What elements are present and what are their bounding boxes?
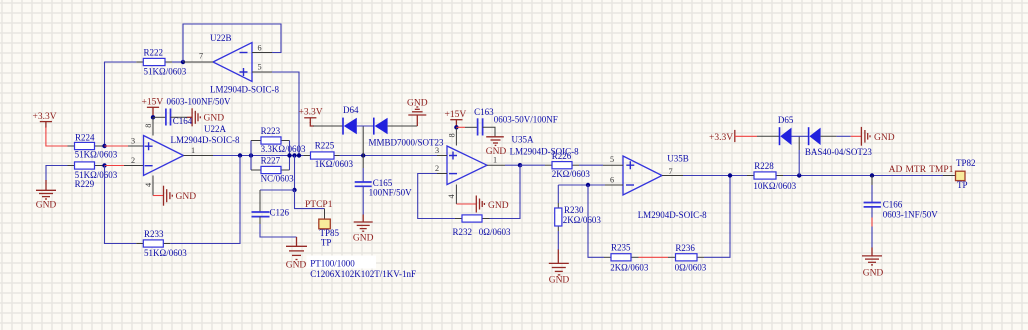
- wire main row U22A output: [213, 155, 311, 157]
- wire R228 to TP82: [783, 175, 943, 177]
- svg-text:6: 6: [257, 44, 261, 53]
- node pin8/C163: [454, 125, 458, 129]
- wire R222 left to vertical: [105, 62, 137, 146]
- pin 7 of U35B: [662, 175, 683, 177]
- svg-text:5: 5: [257, 63, 261, 72]
- wire C126 to ground: [260, 224, 297, 237]
- svg-text:LM2904D-SOIC-8: LM2904D-SOIC-8: [171, 135, 240, 145]
- svg-text:TP: TP: [321, 238, 332, 248]
- pin 1 of U35A: [487, 164, 505, 166]
- svg-text:1: 1: [493, 156, 497, 165]
- svg-text:+3.3V: +3.3V: [709, 133, 733, 143]
- node C126/PTCP1 branch: [292, 153, 296, 157]
- svg-text:R230: R230: [564, 205, 584, 215]
- node pin8/C164: [151, 115, 155, 119]
- svg-text:GND: GND: [549, 276, 570, 286]
- wire C164 to ground: [171, 116, 188, 118]
- pin 8 of U35A: [455, 127, 457, 145]
- resistor R223: [251, 126, 306, 154]
- svg-text:GND: GND: [863, 269, 884, 279]
- resistor R230 (vertical): [555, 185, 602, 231]
- svg-text:0603-50V/100NF: 0603-50V/100NF: [494, 114, 558, 124]
- svg-text:7: 7: [199, 52, 203, 61]
- node U22A pin2: [102, 163, 106, 167]
- wire U35B output row: [683, 175, 747, 177]
- svg-text:100NF/50V: 100NF/50V: [369, 188, 413, 198]
- svg-text:51KΩ/0603: 51KΩ/0603: [75, 150, 118, 160]
- testpoint TP82: [956, 158, 976, 190]
- node output/R233: [238, 153, 242, 157]
- svg-text:R232: R232: [453, 227, 473, 237]
- svg-text:+15V: +15V: [142, 98, 164, 108]
- pin 3 of U35A: [437, 155, 447, 157]
- svg-text:C165: C165: [373, 178, 393, 188]
- pin 6 of U22B: [252, 52, 272, 54]
- svg-text:GND: GND: [286, 261, 307, 271]
- resistor R224: [68, 132, 118, 159]
- svg-text:6: 6: [610, 176, 614, 185]
- svg-text:C163: C163: [474, 107, 494, 117]
- ground at C126: [286, 237, 307, 271]
- pin 6 of U35B: [605, 184, 623, 186]
- svg-text:2KΩ/0603: 2KΩ/0603: [563, 215, 602, 225]
- svg-text:2KΩ/0603: 2KΩ/0603: [552, 169, 591, 179]
- resistor R232: [453, 215, 511, 237]
- wire node to pin3 (red): [105, 145, 129, 147]
- pin 4 of U35A: [455, 185, 457, 205]
- svg-text:MMBD7000/SOT23: MMBD7000/SOT23: [369, 137, 445, 147]
- svg-text:AD MTR TMP1: AD MTR TMP1: [889, 165, 954, 175]
- svg-text:0603-1NF/50V: 0603-1NF/50V: [883, 210, 939, 220]
- node U35B output: [728, 173, 732, 177]
- svg-text:2: 2: [131, 156, 135, 165]
- capacitor C165: [355, 156, 412, 198]
- node parallel pair right: [287, 153, 291, 157]
- svg-text:U35A: U35A: [512, 134, 534, 144]
- svg-text:R227: R227: [261, 155, 281, 165]
- power +3.3V at D64: [299, 108, 323, 123]
- wire R225 to C165 node: [340, 155, 438, 157]
- power +15V at U35A pin8: [445, 110, 467, 127]
- wire D65 to ground: [821, 135, 837, 137]
- svg-text:GND: GND: [204, 114, 225, 124]
- testpoint TP85: [319, 219, 340, 248]
- ground above D64 (inverted): [407, 99, 428, 126]
- svg-text:51KΩ/0603: 51KΩ/0603: [144, 66, 187, 76]
- wire R229 left to ground: [46, 166, 68, 182]
- svg-text:0Ω/0603: 0Ω/0603: [479, 227, 511, 237]
- resistor R228: [747, 161, 797, 191]
- ground at U22A pin4 (sideways): [164, 186, 197, 206]
- svg-text:R223: R223: [261, 126, 281, 136]
- wire pair right vertical: [289, 141, 291, 171]
- svg-text:C1206X102K102T/1KV-1nF: C1206X102K102T/1KV-1nF: [310, 269, 416, 279]
- svg-text:2: 2: [435, 164, 439, 173]
- wire output node to R226: [520, 164, 545, 166]
- power +15V at U22A pin8: [142, 98, 164, 118]
- ground at U35A pin4 (sideways): [476, 196, 508, 213]
- pin 1 of U22A: [184, 155, 214, 157]
- svg-text:0603-100NF/50V: 0603-100NF/50V: [167, 97, 232, 107]
- text frame PT100/1000: [307, 256, 416, 279]
- svg-text:LM2904D-SOIC-8: LM2904D-SOIC-8: [638, 210, 707, 220]
- wire +3.3V to D65 (red): [735, 135, 757, 137]
- ground at C164 (sideways): [192, 108, 224, 126]
- svg-text:GND: GND: [353, 234, 374, 244]
- wire C163 to ground: [483, 127, 495, 136]
- wire pin6 row: [558, 184, 605, 186]
- resistor R222: [136, 48, 186, 77]
- svg-text:U35B: U35B: [667, 153, 689, 163]
- ground at R230: [549, 250, 570, 286]
- node pin6/R230/R235: [586, 183, 590, 187]
- pin 3 of U22A: [128, 145, 144, 147]
- op-amp U35A: [447, 134, 579, 184]
- wire R230 to ground: [557, 231, 559, 250]
- resistor R226: [545, 151, 590, 179]
- wire R232 to output node: [490, 165, 521, 218]
- svg-text:R226: R226: [552, 151, 572, 161]
- resistor R233: [136, 229, 187, 258]
- wire R222 right to node: [172, 61, 183, 63]
- ground at D65 (sideways): [861, 127, 894, 146]
- pin 4 of U22A: [152, 176, 154, 196]
- wire feedback via R233: [105, 166, 137, 244]
- svg-text:GND: GND: [36, 201, 57, 211]
- svg-text:4: 4: [144, 183, 153, 187]
- svg-text:R233: R233: [144, 229, 164, 239]
- svg-text:LM2904D-SOIC-8: LM2904D-SOIC-8: [210, 85, 279, 95]
- ground at R229: [36, 180, 57, 211]
- svg-text:GND: GND: [176, 192, 197, 202]
- svg-text:8: 8: [144, 124, 153, 128]
- pin 2 of U22A: [124, 165, 144, 167]
- resistor R225: [304, 140, 354, 168]
- wire feedback via R232: [418, 174, 455, 219]
- pin 7 of U22B: [183, 61, 213, 63]
- wire +3.3V to R224 (red): [46, 127, 68, 146]
- svg-text:PTCP1: PTCP1: [305, 200, 333, 210]
- wire R235 to R236 (red): [639, 256, 669, 258]
- node parallel pair left: [249, 153, 253, 157]
- wire pin4 to ground (red): [456, 203, 476, 205]
- svg-text:7: 7: [668, 167, 672, 176]
- pin 5 of U35B: [603, 164, 623, 166]
- svg-text:R228: R228: [754, 161, 774, 171]
- svg-text:R235: R235: [611, 243, 631, 253]
- wire branch down to C126 node: [294, 156, 296, 191]
- svg-text:+3.3V: +3.3V: [299, 108, 323, 118]
- pin 2 of U35A: [437, 173, 447, 175]
- svg-text:C126: C126: [270, 207, 290, 217]
- svg-text:2KΩ/0603: 2KΩ/0603: [610, 263, 649, 273]
- svg-text:1: 1: [191, 146, 195, 155]
- resistor R236: [668, 243, 707, 273]
- svg-text:4: 4: [447, 194, 456, 198]
- svg-text:D64: D64: [343, 105, 359, 115]
- node D65 clamp: [797, 173, 801, 177]
- wire D64 branch vertical: [362, 126, 364, 156]
- svg-text:TP: TP: [957, 180, 968, 190]
- pin 5 of U22B: [252, 71, 272, 73]
- wire node to pin2 (red): [105, 165, 125, 167]
- wire pair left vertical: [250, 141, 252, 171]
- wire R226 to U35B pin5: [579, 164, 603, 166]
- wire pin4 to ground (red): [153, 195, 164, 197]
- capacitor C126: [252, 190, 290, 224]
- node U22B pin5 branch: [297, 153, 301, 157]
- svg-text:R225: R225: [315, 140, 335, 150]
- svg-text:R229: R229: [75, 179, 95, 189]
- svg-text:U22A: U22A: [204, 124, 226, 134]
- wire C165 to ground: [362, 186, 364, 215]
- wire D64 to ground: [388, 125, 418, 127]
- svg-text:+3.3V: +3.3V: [33, 112, 57, 122]
- wire R235 feedback row: [588, 185, 604, 257]
- capacitor C164: [166, 97, 231, 127]
- resistor R235: [604, 243, 649, 273]
- wire node to C163: [456, 126, 465, 128]
- svg-text:U22B: U22B: [210, 33, 232, 43]
- svg-text:R236: R236: [675, 243, 695, 253]
- svg-text:3.3KΩ/0603: 3.3KΩ/0603: [261, 144, 306, 154]
- node U22A pin3: [102, 144, 106, 148]
- svg-text:3: 3: [131, 137, 135, 146]
- wire U22B pin5 down to main row: [272, 72, 299, 156]
- power +3.3V at D65 (sideways): [709, 130, 735, 143]
- svg-text:+15V: +15V: [445, 110, 467, 120]
- resistor R227: [251, 155, 294, 183]
- wire output to node: [505, 164, 520, 166]
- pin 8 of U22A: [152, 117, 154, 135]
- node C166: [870, 173, 874, 177]
- capacitor C166: [864, 176, 939, 220]
- node U35A output: [518, 163, 522, 167]
- svg-text:1KΩ/0603: 1KΩ/0603: [315, 159, 354, 169]
- svg-text:0Ω/0603: 0Ω/0603: [675, 263, 707, 273]
- svg-text:R222: R222: [144, 48, 164, 58]
- svg-text:C166: C166: [883, 199, 903, 209]
- op-amp U22B: [210, 33, 279, 95]
- wire D65 branch vertical: [798, 136, 800, 150]
- wire to testpoint TP85: [295, 190, 325, 209]
- wire R233 to output node: [170, 156, 240, 244]
- wire node to C164: [153, 116, 166, 118]
- wire +3.3V to D64 (red): [310, 122, 314, 126]
- svg-text:NC/0603: NC/0603: [261, 173, 295, 183]
- diode D64: [343, 105, 444, 148]
- ground at C166: [862, 248, 883, 279]
- svg-text:TP82: TP82: [956, 158, 976, 168]
- wire C166 to ground (with red segment): [871, 207, 873, 218]
- svg-text:BAS40-04/SOT23: BAS40-04/SOT23: [805, 147, 873, 157]
- wire U22B feedback loop: [183, 24, 281, 62]
- svg-text:PT100/1000: PT100/1000: [310, 258, 355, 268]
- svg-text:10KΩ/0603: 10KΩ/0603: [753, 181, 796, 191]
- node C165/D64: [361, 153, 365, 157]
- wire R236 up to output node: [704, 176, 730, 258]
- resistor R229: [68, 162, 118, 189]
- svg-text:3: 3: [435, 146, 439, 155]
- node at R222 right / U22B pin7: [181, 60, 185, 64]
- wire node to C126: [260, 189, 295, 191]
- power +3.3V at R224: [33, 112, 57, 128]
- svg-text:R224: R224: [75, 132, 95, 142]
- ground at C163: [486, 137, 507, 157]
- op-amp U22A: [144, 124, 240, 176]
- ground at C165: [353, 215, 374, 244]
- op-amp U35B: [623, 153, 707, 220]
- diode D65: [778, 115, 873, 157]
- svg-text:51KΩ/0603: 51KΩ/0603: [144, 248, 187, 258]
- capacitor C163: [474, 107, 558, 136]
- svg-text:5: 5: [610, 155, 614, 164]
- node C126 top: [292, 188, 296, 192]
- svg-text:GND: GND: [488, 201, 509, 211]
- svg-text:GND: GND: [407, 99, 428, 109]
- svg-text:8: 8: [448, 133, 457, 137]
- svg-text:D65: D65: [778, 115, 794, 125]
- svg-text:GND: GND: [874, 133, 895, 143]
